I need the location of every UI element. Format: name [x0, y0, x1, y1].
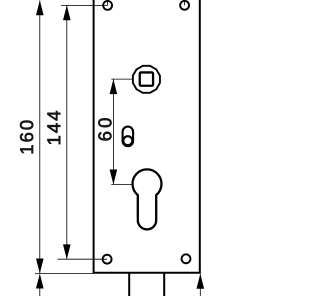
plate bottom edge	[93, 272, 201, 274]
lock case tab right line	[163, 273, 165, 296]
screw hole top-left	[103, 1, 112, 10]
dimension line bottom right (cropped)	[199, 274, 201, 296]
screw hole top-right	[180, 1, 189, 10]
arrow down 60 bottom	[110, 170, 118, 185]
center tick top-left screw	[107, 0, 109, 5]
arrow down 144 bottom	[63, 244, 71, 259]
arrow up below plate bottom (continuation dim)	[36, 274, 44, 289]
dimension line 160	[39, 1, 41, 274]
screw hole bottom-right	[182, 254, 191, 263]
wire continuation below	[39, 287, 41, 296]
arrow up bottom right	[197, 274, 205, 289]
arrow up 160 top	[36, 0, 44, 15]
plate left edge	[93, 0, 95, 273]
extension line top screw y=5.4	[61, 4, 108, 6]
arrow up 60 top	[110, 79, 118, 94]
oval inner circle	[123, 136, 132, 145]
label 60	[98, 118, 111, 140]
label 144	[47, 111, 60, 144]
arrow up 144 top	[63, 5, 71, 20]
euro cylinder hole	[133, 169, 162, 229]
oval hole	[123, 127, 134, 147]
lock case tab left line	[128, 273, 130, 296]
spindle square	[140, 72, 153, 85]
extension line spindle center y=79.1	[111, 78, 132, 80]
label 160	[20, 121, 33, 154]
center tick top-right screw	[184, 0, 186, 5]
dimension line 144	[66, 5, 68, 259]
screw hole bottom-left	[103, 255, 112, 264]
extension line plate bottom y=273.5	[35, 273, 94, 275]
dimension line 60	[112, 79, 114, 184]
spindle hole outer ring (12-gon)	[133, 66, 160, 93]
plate right edge	[199, 0, 201, 273]
extension line bottom screw y=259.2	[58, 258, 108, 260]
extension line cylinder center y=184.5	[111, 184, 132, 186]
arrow down 160 bottom	[36, 259, 44, 274]
